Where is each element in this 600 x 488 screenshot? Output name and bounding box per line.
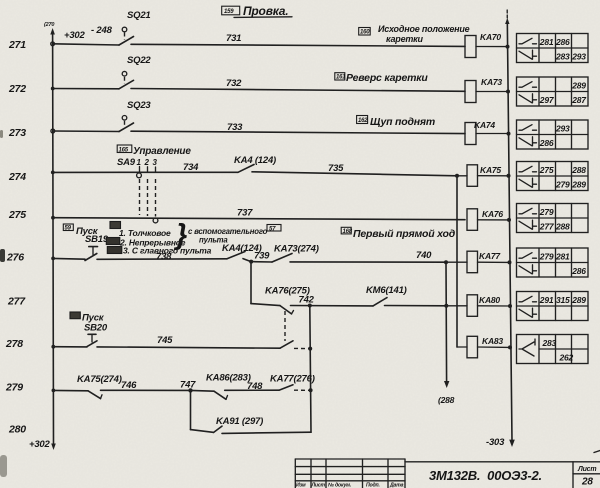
- svg-text:KA75: KA75: [480, 165, 501, 175]
- svg-text:KA77: KA77: [479, 251, 501, 261]
- svg-text:KA4 (124): KA4 (124): [234, 155, 276, 166]
- limit switch SQ22: [119, 55, 151, 89]
- svg-text:289: 289: [571, 81, 586, 91]
- svg-text:160: 160: [360, 30, 370, 36]
- svg-text:742: 742: [299, 295, 315, 306]
- svg-text:281: 281: [555, 252, 570, 262]
- node wire735/lineA: [455, 174, 459, 178]
- svg-text:KA83: KA83: [482, 336, 503, 346]
- linked contact row278: [280, 341, 309, 349]
- wire row272: [53, 78, 465, 91]
- svg-text:747: 747: [180, 380, 196, 391]
- svg-text:745: 745: [157, 335, 173, 346]
- svg-text:+302: +302: [29, 439, 51, 450]
- contact table KA77: [517, 248, 589, 277]
- svg-text:Дата: Дата: [389, 483, 404, 488]
- node 742 top: [291, 295, 374, 308]
- svg-text:289: 289: [571, 180, 586, 190]
- relay coil KA74: [465, 120, 511, 145]
- svg-text:739: 739: [254, 251, 270, 262]
- svg-text:Щуп поднят: Щуп поднят: [370, 116, 435, 128]
- svg-text:293: 293: [571, 52, 586, 62]
- svg-text:271: 271: [8, 39, 26, 51]
- svg-text:168: 168: [343, 229, 353, 235]
- svg-text:735: 735: [328, 163, 344, 174]
- contact KA4(124) row276: [222, 243, 262, 262]
- svg-text:Первый прямой ход: Первый прямой ход: [353, 228, 456, 240]
- limit switch SQ21: [119, 10, 151, 45]
- svg-text:279: 279: [539, 207, 554, 217]
- wire row274 734: [53, 162, 238, 173]
- svg-text:287: 287: [571, 95, 587, 105]
- svg-text:SB19: SB19: [85, 234, 109, 245]
- svg-text:279: 279: [5, 382, 23, 394]
- svg-text:159: 159: [224, 9, 234, 15]
- svg-text:279: 279: [539, 252, 554, 262]
- svg-text:165: 165: [119, 147, 129, 153]
- contact KM6(141): [366, 285, 446, 306]
- vertical 742 line: [308, 306, 312, 433]
- wire row277: [251, 304, 280, 306]
- wire row278 745: [97, 335, 280, 348]
- branch KA91(297): [191, 390, 312, 433]
- svg-text:28: 28: [581, 477, 593, 488]
- line B down to (288: [438, 262, 455, 405]
- selector SA9 управление: [117, 145, 191, 223]
- svg-text:277: 277: [539, 222, 555, 232]
- contact table KA70: [517, 34, 589, 63]
- svg-text:SQ22: SQ22: [127, 55, 151, 66]
- svg-text:288: 288: [571, 165, 586, 175]
- svg-text:KA77(276): KA77(276): [270, 374, 315, 385]
- svg-text:KA73: KA73: [481, 77, 502, 87]
- right bus -303: [486, 10, 515, 448]
- wire row273: [53, 122, 465, 134]
- svg-text:KM6(141): KM6(141): [366, 285, 407, 296]
- svg-text:293: 293: [555, 124, 570, 134]
- contact table KA80: [517, 292, 589, 321]
- contact KA73(274) row276: [251, 244, 446, 263]
- svg-text:732: 732: [226, 78, 242, 89]
- svg-text:731: 731: [226, 33, 241, 44]
- contact KA77(276) row279: [270, 374, 315, 391]
- svg-text:59: 59: [65, 226, 72, 232]
- svg-text:SQ21: SQ21: [127, 10, 151, 21]
- svg-text:288: 288: [555, 222, 570, 232]
- svg-text:- 248: - 248: [91, 25, 113, 36]
- relay coil KA75: [457, 165, 511, 187]
- svg-text:274: 274: [8, 171, 26, 183]
- contact table KA75: [517, 162, 589, 191]
- svg-text:-303: -303: [486, 437, 505, 448]
- vertical 739 to row277: [250, 262, 252, 304]
- contact KA75(274) row279: [77, 374, 191, 399]
- limit switch SQ23: [119, 100, 151, 132]
- pushbutton SB20 пуск: [53, 312, 108, 347]
- contact KA86(283) row279: [191, 373, 280, 400]
- relay coil KA77: [446, 251, 512, 273]
- svg-text:Изм: Изм: [296, 483, 306, 488]
- svg-text:286: 286: [555, 37, 570, 47]
- svg-text:748: 748: [247, 381, 263, 392]
- relay coil KA80: [446, 295, 512, 317]
- svg-text:275: 275: [539, 165, 554, 175]
- svg-text:283: 283: [555, 52, 570, 62]
- svg-text:3M132B. 00ОЭ3-2.: 3M132B. 00ОЭ3-2.: [429, 468, 542, 483]
- svg-text:каретки: каретки: [386, 34, 424, 44]
- node 740/lineB: [444, 260, 448, 264]
- svg-text:738: 738: [156, 252, 172, 263]
- svg-text:276: 276: [6, 252, 24, 264]
- svg-text:272: 272: [8, 83, 26, 95]
- svg-text:734: 734: [183, 162, 199, 173]
- wire row279: [53, 389, 88, 391]
- svg-text:278: 278: [5, 338, 23, 350]
- pushbutton SB19 пуск: [63, 224, 109, 261]
- contact table KA74: [517, 120, 589, 149]
- svg-text:273: 273: [8, 127, 26, 139]
- svg-text:262: 262: [559, 353, 574, 363]
- svg-text:}: }: [173, 219, 187, 251]
- svg-text:275: 275: [8, 209, 26, 221]
- contact KA76(275) with link: [265, 286, 310, 342]
- svg-text:286: 286: [571, 266, 586, 276]
- label первый прямой ход: [341, 227, 456, 240]
- svg-text:286: 286: [539, 138, 554, 148]
- svg-text:281: 281: [539, 37, 554, 47]
- contact KA4(124) row274: [234, 155, 457, 176]
- header text Провка: [222, 4, 292, 18]
- svg-text:KA73(274): KA73(274): [274, 244, 319, 255]
- svg-text:740: 740: [416, 250, 432, 261]
- contact table KA83: [517, 335, 589, 364]
- contact table KA76: [517, 204, 589, 233]
- relay coil KA76: [467, 209, 511, 231]
- relay coil KA73: [465, 77, 510, 103]
- svg-text:2: 2: [144, 158, 150, 167]
- title block: [295, 459, 600, 488]
- svg-text:161: 161: [336, 75, 346, 81]
- svg-text:737: 737: [237, 208, 253, 219]
- svg-text:SQ23: SQ23: [127, 100, 151, 111]
- relay coil KA70: [465, 32, 510, 58]
- svg-text:KA75(274): KA75(274): [77, 374, 122, 385]
- svg-text:(270: (270: [44, 22, 54, 28]
- left bus +302: [29, 22, 113, 450]
- svg-text:733: 733: [227, 122, 243, 133]
- svg-text:283: 283: [542, 338, 557, 348]
- svg-text:KA80: KA80: [479, 295, 500, 305]
- svg-text:KA70: KA70: [480, 32, 501, 42]
- svg-text:KA86(283): KA86(283): [206, 373, 251, 384]
- svg-text:280: 280: [8, 424, 26, 436]
- contact table KA73: [517, 77, 589, 106]
- svg-text:162: 162: [358, 118, 368, 124]
- label row273 щуп поднят: [357, 116, 435, 129]
- wire row271: [53, 33, 465, 46]
- svg-text:Управление: Управление: [133, 146, 191, 157]
- svg-text:(288: (288: [438, 395, 455, 405]
- svg-text:KA91 (297): KA91 (297): [216, 416, 263, 427]
- svg-text:Лист: Лист: [311, 483, 326, 488]
- wire row275 737: [53, 208, 465, 220]
- node row277 lineB: [444, 304, 448, 308]
- svg-text:289: 289: [571, 295, 586, 305]
- svg-text:KA74: KA74: [474, 120, 495, 130]
- svg-text:+302: +302: [64, 30, 86, 41]
- svg-text:57: 57: [269, 226, 276, 232]
- svg-text:№ докум.: № докум.: [328, 483, 351, 488]
- node 739: [249, 260, 253, 264]
- svg-text:Подп.: Подп.: [366, 483, 380, 488]
- scan smudges: [0, 130, 7, 477]
- svg-text:315: 315: [556, 295, 570, 305]
- labels SA9 positions: [106, 219, 281, 256]
- bus junction dots: [51, 87, 56, 393]
- relay coil KA83: [457, 336, 512, 358]
- svg-text:297: 297: [539, 95, 555, 105]
- svg-text:291: 291: [539, 295, 554, 305]
- svg-text:Исходное положение: Исходное положение: [378, 24, 470, 34]
- svg-text:SB20: SB20: [84, 323, 108, 334]
- svg-text:Лист: Лист: [577, 466, 596, 473]
- svg-text:SA9: SA9: [117, 157, 136, 168]
- node 747: [188, 388, 192, 392]
- label row271 исходное положение каретки: [359, 24, 470, 44]
- svg-text:1. Толчковое: 1. Толчковое: [119, 228, 171, 238]
- svg-text:KA76: KA76: [482, 209, 503, 219]
- svg-text:746: 746: [121, 380, 137, 391]
- wire row276 738: [53, 252, 227, 263]
- svg-text:277: 277: [7, 296, 26, 308]
- label row272 реверс каретки: [335, 72, 429, 84]
- line A vertical to KA83: [456, 176, 458, 347]
- svg-text:Провка.: Провка.: [243, 4, 288, 18]
- svg-text:Реверс каретки: Реверс каретки: [346, 72, 428, 84]
- svg-text:279: 279: [555, 180, 570, 190]
